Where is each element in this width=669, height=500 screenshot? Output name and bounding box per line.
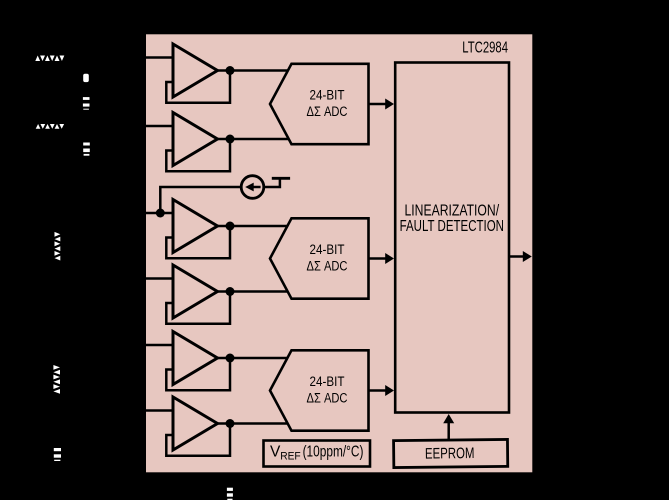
svg-text:24-BIT: 24-BIT — [310, 87, 345, 103]
svg-text:EEPROM: EEPROM — [425, 445, 475, 463]
current source I1 — [241, 176, 264, 199]
ground symbol G3 (white fragment) — [54, 448, 61, 461]
svg-text:FAULT DETECTION: FAULT DETECTION — [400, 218, 504, 235]
thermistor R2 vertical zigzag (white fragment) — [53, 365, 60, 394]
wire+arrow: ADC U2 output to linearization block — [369, 99, 395, 110]
svg-text:ΔΣ ADC: ΔΣ ADC — [307, 390, 348, 406]
svg-text:LTC2984: LTC2984 — [462, 40, 508, 57]
node: buffer A6 output junction — [226, 419, 235, 428]
wire: input pin to buffer A1 — [146, 56, 174, 59]
wire: buffer A6 output to ADC — [217, 422, 290, 425]
ADC U2: 24-bit delta-sigma ADC — [270, 64, 369, 144]
svg-text:(10ppm/°C): (10ppm/°C) — [303, 443, 364, 460]
op-amp buffer A3 — [166, 200, 230, 259]
wire+arrow: ADC U3 output to linearization block — [369, 253, 395, 264]
svg-text:REF: REF — [280, 451, 301, 463]
node: buffer A2 output junction — [226, 135, 235, 144]
svg-text:ΔΣ ADC: ΔΣ ADC — [307, 104, 348, 120]
wire: current source to switch stem — [264, 178, 280, 187]
ground symbol G2 (white fragment) — [83, 143, 90, 156]
op-amp buffer A1 — [166, 44, 230, 103]
node: buffer A3 output junction — [226, 222, 235, 231]
wire: input pin to buffer A5 — [146, 344, 174, 347]
wire: input pin to buffer A2 — [146, 125, 174, 128]
wire: excitation node up to current source — [160, 187, 241, 213]
wire+arrow: linearization output to chip pin — [509, 251, 532, 262]
node: buffer A5 output junction — [226, 354, 235, 363]
node: buffer A4 output junction — [226, 287, 235, 296]
block: linearization / fault detection — [395, 63, 509, 413]
thermocouple TC2 zigzag (white fragment) — [36, 124, 64, 129]
wire: buffer A4 output to ADC — [217, 290, 290, 293]
wire: buffer A5 output to ADC — [217, 357, 290, 360]
op-amp buffer A4 — [166, 265, 230, 324]
wire: buffer A3 output to ADC — [217, 225, 290, 228]
op-amp buffer A5 — [166, 332, 230, 391]
ADC U4: 24-bit delta-sigma ADC — [270, 350, 369, 430]
svg-text:24-BIT: 24-BIT — [310, 242, 345, 258]
node: junction dot at A3 input — [156, 209, 165, 218]
svg-text:LINEARIZATION/: LINEARIZATION/ — [405, 202, 500, 219]
thermocouple TC1 zigzag (white fragment) — [35, 56, 64, 62]
op-amp buffer A2 — [166, 113, 230, 172]
node: buffer A1 output junction — [226, 66, 235, 75]
ground symbol G4 below VREF (white fragment) — [227, 488, 233, 500]
ground symbol G1 (white fragment) — [83, 97, 90, 110]
wire: buffer A1 output to ADC — [217, 69, 290, 72]
wire+arrow: ADC U4 output to linearization block — [369, 385, 395, 396]
switch contact bar — [272, 177, 290, 180]
wire+arrow: EEPROM to linearization block — [443, 414, 454, 440]
wire: input pin to buffer A6 — [146, 409, 174, 412]
op-amp buffer A6 — [166, 397, 230, 456]
svg-text:24-BIT: 24-BIT — [310, 374, 345, 390]
ADC U3: 24-bit delta-sigma ADC — [270, 218, 369, 298]
svg-text:ΔΣ ADC: ΔΣ ADC — [307, 258, 348, 274]
block: VREF 10ppm reference — [264, 441, 371, 467]
resistor RTD R1 vertical zigzag (white fragment) — [55, 232, 61, 261]
block: EEPROM — [394, 439, 508, 467]
IC U1 LTC2984 chip body — [146, 34, 532, 472]
wire: input pin to buffer A4 — [146, 277, 174, 280]
wire: buffer A2 output to ADC — [217, 138, 290, 141]
wire: input pin to buffer A3 with excitation node — [146, 212, 174, 215]
sensor junction blob (white fragment) — [83, 74, 89, 82]
